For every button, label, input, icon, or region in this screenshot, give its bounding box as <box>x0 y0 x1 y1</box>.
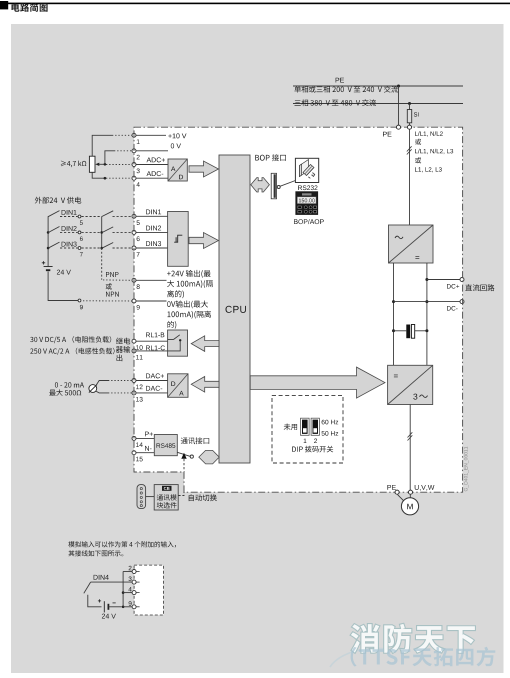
switch label DIN2 <box>62 226 77 231</box>
wire wiper branch up to terminal 2 <box>105 151 114 165</box>
DIN4 stub t9 <box>123 606 132 608</box>
capacitor C1 plate + <box>406 325 410 339</box>
wire UVW to motor <box>409 494 411 497</box>
label max 500 <box>49 389 81 396</box>
DIN4 battery label <box>102 614 116 619</box>
inner bank vertical <box>101 216 103 248</box>
DIN1 dotted link <box>82 216 101 218</box>
ext bus vertical <box>47 216 49 266</box>
DIP switch 2 <box>311 418 319 435</box>
DIN4 battery short plate <box>107 604 109 610</box>
RS485 switch lever <box>177 452 190 456</box>
label L1 L2 L3 <box>415 167 442 172</box>
label 0-20mA <box>55 382 84 387</box>
DIN4 left drop <box>88 595 102 607</box>
wire terminal 8 +24V out <box>136 279 167 281</box>
wire terminal 7 DIN3 <box>136 247 168 249</box>
wire terminal 10 RL1-B <box>136 340 168 342</box>
watermark TTSF <box>351 647 496 667</box>
terminal 13 <box>132 391 136 395</box>
arrow DIN to CPU <box>189 233 219 249</box>
mains line L1 <box>293 85 463 87</box>
net label ADC+ <box>147 157 166 162</box>
BOP connector strip <box>271 173 276 199</box>
DIN4 stub t2 <box>123 571 132 573</box>
label 通讯模 <box>157 494 177 500</box>
junction DC- tap crossing <box>425 300 428 303</box>
arrow CPU to inverter <box>250 367 385 398</box>
terminal 3 <box>132 163 136 167</box>
wire terminal 3 ADC+ <box>136 164 168 166</box>
label 器输 wrap2 <box>116 346 130 353</box>
pot wiper arrow <box>95 163 99 166</box>
wire terminal 14 P+ <box>136 437 154 439</box>
D/A converter block <box>168 374 188 398</box>
rectifier block <box>389 225 434 263</box>
arrow CPU to relay <box>191 336 219 352</box>
label 出 wrap3 <box>117 354 123 361</box>
wire rectifier out right <box>426 263 428 365</box>
terminal mains redraw <box>408 125 412 129</box>
wire pot top to terminal 1 <box>92 135 112 156</box>
DIP switch dashed box <box>272 395 343 463</box>
DIN4 dashed box <box>134 565 163 615</box>
label NPN <box>106 292 119 297</box>
DIN2 dashed link <box>60 231 78 233</box>
wire terminal 13 DAC- <box>136 392 168 394</box>
inverter DC symbol <box>394 375 398 378</box>
RS485 block <box>154 435 177 456</box>
switch DIN2 contact <box>78 231 81 234</box>
auto-switch arrowhead <box>181 453 186 459</box>
contact number 5 ext <box>80 221 83 225</box>
DIN4 terminal label 2 <box>129 566 132 571</box>
wire to terminal 2 dotted <box>114 150 132 152</box>
net label DAC- <box>146 386 162 391</box>
wire pot bottom <box>92 172 105 178</box>
meter top stub <box>96 381 108 387</box>
junction DC- tap left <box>392 300 395 303</box>
relay output block <box>168 330 188 356</box>
wire to terminal 4 dotted <box>106 177 132 179</box>
DIN2 dotted link <box>82 231 101 233</box>
wire PE drop <box>398 86 400 125</box>
inner switch 6 lever <box>102 227 113 233</box>
wire fuse drop lower <box>409 123 411 125</box>
junction inner 6 <box>100 231 103 234</box>
wire PE to motor <box>398 495 404 501</box>
net label +10 V <box>168 133 186 138</box>
label 或 1 <box>415 139 421 145</box>
relay contact feed <box>168 339 174 341</box>
terminal 4 <box>132 176 136 180</box>
meter P1 <box>89 385 97 393</box>
DIN4 terminal label 4 <box>128 587 131 591</box>
wire pot top dotted <box>112 134 132 136</box>
DIN4 terminal label 9 <box>129 601 132 606</box>
label UVW <box>415 485 435 491</box>
wire terminal 11 RL1-C <box>136 350 168 352</box>
wire terminal 2 0V <box>136 150 168 152</box>
inverter block <box>388 365 433 404</box>
junction DIN2 ext <box>47 231 50 234</box>
battery to bottom rail <box>48 272 78 301</box>
A/D converter block <box>168 159 187 181</box>
net label DIN3 inner <box>146 241 161 246</box>
terminal number 5 <box>137 220 140 225</box>
label 直流回路 <box>465 284 494 291</box>
inverter diagonal <box>388 365 433 404</box>
DIN4 battery plus <box>98 599 101 602</box>
rectifier DC symbol <box>415 256 419 259</box>
terminal PE top <box>397 125 401 129</box>
junction capacitor right <box>425 329 428 332</box>
wire break mark (multi-phase) <box>407 146 412 154</box>
motor label M <box>407 504 412 510</box>
terminal UVW <box>409 490 413 494</box>
DIN4 battery long plate <box>103 601 105 612</box>
DIN4 terminal 3 <box>132 580 136 584</box>
DIN4 terminal 9 <box>132 605 136 609</box>
mains voltage label line1 <box>294 86 398 93</box>
digital input block <box>168 212 189 267</box>
terminal mains input <box>408 125 412 129</box>
terminal DC+ <box>460 278 464 282</box>
terminal number 7 <box>137 252 140 257</box>
battery B1 24V plus sign <box>42 261 45 264</box>
DIN1 dashed link <box>60 216 78 218</box>
label DIN4 <box>94 575 109 580</box>
terminal number 13 <box>136 397 143 402</box>
label 或 2 <box>415 157 421 163</box>
RS232 label <box>298 185 317 190</box>
CPU label <box>226 306 246 313</box>
terminal number 3 <box>137 169 140 174</box>
BOP/AOP label <box>294 219 324 224</box>
label 0V output line2 <box>168 311 212 319</box>
contact number 6 ext <box>80 237 83 241</box>
net label DAC+ <box>146 373 164 378</box>
label 通讯接口 <box>181 437 209 444</box>
wire terminal 9 0V out <box>136 300 167 302</box>
wire terminal 15 N- <box>136 452 154 454</box>
DIN3 dashed link <box>60 247 78 249</box>
terminal number 11 <box>136 355 143 360</box>
label 0V output line3 <box>168 321 177 329</box>
inner bank dashed drop <box>101 248 103 280</box>
DIN4 bus vertical <box>122 572 124 607</box>
watermark 消防天下 <box>351 624 475 653</box>
DIP switch 2 number <box>314 439 317 444</box>
auto-switch dashed link <box>183 459 185 472</box>
A/D label A <box>171 167 175 172</box>
note line2 <box>69 550 124 556</box>
meter bottom dotted to terminal 13 <box>108 392 132 394</box>
terminal DC- <box>460 300 464 304</box>
net label P+ <box>145 432 153 437</box>
junction DIN3 ext <box>47 247 50 250</box>
net label 0 V <box>171 143 181 148</box>
net label RL1-B <box>146 333 164 338</box>
communication module box <box>154 485 178 510</box>
arrow CPU to D/A <box>191 377 219 393</box>
BOP link contact <box>277 186 280 189</box>
wire wiper <box>99 163 105 165</box>
RS485 label <box>157 443 176 448</box>
rectifier diagonal <box>389 225 434 263</box>
net label DIN1 inner <box>146 210 161 215</box>
label +24V output line1 <box>167 270 211 278</box>
wire terminal 5 DIN1 <box>136 215 168 217</box>
arrow CPU to BOP port (notched double arrow) <box>251 178 270 192</box>
CB chip icon <box>162 486 172 491</box>
inner switch 5 lever <box>102 211 113 217</box>
DIN3 dotted link <box>82 247 101 249</box>
label PNP <box>106 272 119 277</box>
wire DC+ tap <box>427 279 461 281</box>
potentiometer R1 <box>89 156 95 172</box>
switch DIN1 lever <box>48 211 59 217</box>
DIN4 battery to bus <box>109 606 122 608</box>
header black square <box>0 1 8 9</box>
meter bottom stub <box>96 391 108 393</box>
label 50 Hz <box>322 431 339 436</box>
battery B1 long plate <box>44 266 53 268</box>
DIN4 junction t4 <box>122 591 125 594</box>
label PE at terminal <box>383 132 392 137</box>
switch DIN1 contact <box>78 215 81 218</box>
terminal 12 <box>132 379 136 383</box>
D/A label A <box>179 391 183 396</box>
label PE bottom <box>387 485 396 490</box>
inner 5 dashed link <box>113 215 132 217</box>
battery B1 short plate <box>46 269 50 271</box>
header rule <box>0 3 510 5</box>
label 外部24 V 供电 <box>35 197 82 204</box>
relay contact lever <box>174 335 180 340</box>
terminal number 8 <box>137 284 140 289</box>
label 或 PNP/NPN <box>106 283 112 289</box>
switch label DIN3 <box>62 242 77 247</box>
terminal number 6 <box>137 236 140 241</box>
switch DIN3 lever <box>48 242 59 248</box>
wire capacitor right <box>415 330 427 332</box>
terminal number 4 <box>137 182 140 187</box>
terminal number 12 <box>136 385 143 390</box>
DIN4 terminal 2 <box>132 570 136 574</box>
net label ADC- <box>147 171 164 176</box>
drawing id caption <box>464 447 469 492</box>
terminal 15 <box>132 451 136 455</box>
DIN4 battery minus <box>113 602 116 604</box>
label 未用 <box>284 424 297 431</box>
junction pot bottom <box>104 177 107 180</box>
D/A diagonal <box>168 374 188 398</box>
bottom rail contact <box>78 299 81 302</box>
label L/L1 N/L2 <box>415 131 443 136</box>
auto-switch link to module <box>178 492 184 496</box>
terminal number 2 <box>137 155 140 160</box>
relay contact out <box>168 341 181 351</box>
switch DIN2 lever <box>48 227 59 233</box>
wire terminal 4 ADC- <box>136 177 168 179</box>
inner 7 dashed link <box>113 247 132 249</box>
junction on mains line L1 <box>397 85 400 88</box>
header title 电路简图 <box>12 3 48 12</box>
inner switch 7 lever <box>102 243 113 249</box>
junction on mains line L2 <box>408 102 411 105</box>
switch label DIN1 <box>62 210 77 215</box>
terminal 9 <box>132 299 136 303</box>
wire mains to rectifier <box>409 129 411 225</box>
label DIP 拨码开关 <box>292 446 333 453</box>
inverter 3-phase symbol <box>413 394 417 400</box>
meter top dotted to terminal 12 <box>108 380 132 382</box>
terminal 11 <box>132 349 136 353</box>
label 250V AC relay rating <box>30 348 114 355</box>
net label N- <box>145 446 152 451</box>
terminal 1 <box>132 133 136 137</box>
label 块选件 <box>157 502 177 508</box>
label DC+ <box>447 284 459 289</box>
net label PE (mains earth) <box>336 78 344 83</box>
DIN4 pin stub 2 <box>136 571 139 573</box>
label +24V output line3 <box>167 290 184 298</box>
label 0V output line1 <box>167 301 208 309</box>
PNP dotted to terminal 8 <box>103 279 132 281</box>
wire inverter to motor <box>409 405 411 491</box>
inner 6 dashed link <box>113 231 132 233</box>
D/A label D <box>171 382 175 387</box>
wire fuse drop upper <box>409 104 411 110</box>
relay contact point <box>179 339 181 341</box>
label L/L1 N/L2 L3 <box>415 149 453 154</box>
A/D label D <box>179 175 183 180</box>
A/D diagonal <box>168 159 187 181</box>
schmitt trigger symbol <box>174 235 182 242</box>
label 30V DC relay rating <box>30 336 111 343</box>
wire connector to module <box>146 496 155 498</box>
DIN4 switch lever <box>84 582 91 593</box>
contact number 7 ext <box>80 252 83 256</box>
terminal number 9 <box>137 305 140 310</box>
RS232 adapter box <box>295 158 318 182</box>
net label RL1-C <box>146 346 165 351</box>
wire terminal 1 +10V <box>136 134 166 136</box>
terminal number 14 <box>136 443 143 448</box>
motor M <box>401 498 418 515</box>
note line1 <box>68 541 176 547</box>
bottom rail dotted to terminal 9 <box>83 300 132 302</box>
label 60 Hz <box>322 420 339 425</box>
BOP/AOP operator panel <box>295 191 318 215</box>
DIN4 t3 line <box>91 581 133 583</box>
net label DIN2 inner <box>146 226 161 231</box>
terminal number 1 <box>137 139 140 144</box>
DIN4 pin stub 4 <box>136 592 139 594</box>
DIN4 pin stub 9 <box>136 606 139 608</box>
DIP switch 1 <box>301 418 310 435</box>
DIN4 terminal label 3 <box>129 577 132 582</box>
junction wiper <box>104 163 107 166</box>
terminal 7 <box>132 246 136 250</box>
mains voltage label line2 <box>295 99 377 106</box>
contact number 9 ext <box>80 305 83 309</box>
wire rectifier out left <box>393 263 395 365</box>
rectifier AC symbol <box>395 236 403 239</box>
terminal number 15 <box>136 457 143 462</box>
label BOP 接口 <box>255 154 286 161</box>
terminal 5 <box>132 214 136 218</box>
terminal UVW redraw <box>409 490 413 494</box>
junction DC+ tap <box>425 278 428 281</box>
terminal 2 <box>132 149 136 153</box>
label 自动切换 <box>189 494 217 501</box>
wire DC- tap <box>394 301 461 303</box>
DIN4 terminal 4 <box>132 591 136 595</box>
terminal number 10 <box>136 345 143 350</box>
capacitor C1 plate - <box>411 325 414 339</box>
terminal 6 <box>132 230 136 234</box>
terminal PE top redraw <box>397 125 401 129</box>
junction capacitor left <box>392 329 395 332</box>
fuse SI <box>407 110 411 123</box>
terminal PE bottom <box>395 490 399 494</box>
terminal 10 <box>132 339 136 343</box>
inverter enclosure white body <box>134 127 463 492</box>
DIP switch 1 number <box>304 439 307 443</box>
switch DIN3 contact <box>78 247 81 250</box>
option port connector <box>137 485 146 509</box>
label 继电 wrap1 <box>116 338 130 345</box>
CPU block <box>219 155 250 463</box>
wire strip to RS232 <box>277 181 295 188</box>
DIN4 stub t4 <box>123 592 132 594</box>
watermark swoosh <box>330 648 392 667</box>
RS232 connector art <box>300 160 315 179</box>
terminal 8 <box>132 278 136 282</box>
label +24V output line2 <box>167 280 213 288</box>
terminal 14 <box>132 436 136 440</box>
wire terminal 6 DIN2 <box>136 231 168 233</box>
fuse label SI <box>414 112 419 116</box>
DIN4 junction t9 <box>122 606 125 609</box>
junction inner 7 <box>100 247 103 250</box>
arrow A/D to CPU <box>189 161 219 177</box>
wire wiper to terminal 3 dotted <box>106 164 132 166</box>
arrow RS485 to CPU (hexagon link) <box>199 450 219 464</box>
mains line L2 <box>293 103 463 105</box>
label DC- <box>447 306 458 311</box>
inverter tilde <box>420 395 428 398</box>
battery label 24 V <box>57 270 71 275</box>
wire terminal 12 DAC+ <box>136 380 168 382</box>
RS485 switch contact <box>190 455 193 458</box>
terminal PE bottom redraw <box>395 490 399 494</box>
wire capacitor left <box>394 330 407 332</box>
label ≥4,7 kΩ <box>61 161 87 168</box>
DIN4 pin stub 3 <box>136 581 139 583</box>
wire break mark on motor line <box>408 432 413 440</box>
inverter enclosure dash-dot border <box>134 127 463 492</box>
